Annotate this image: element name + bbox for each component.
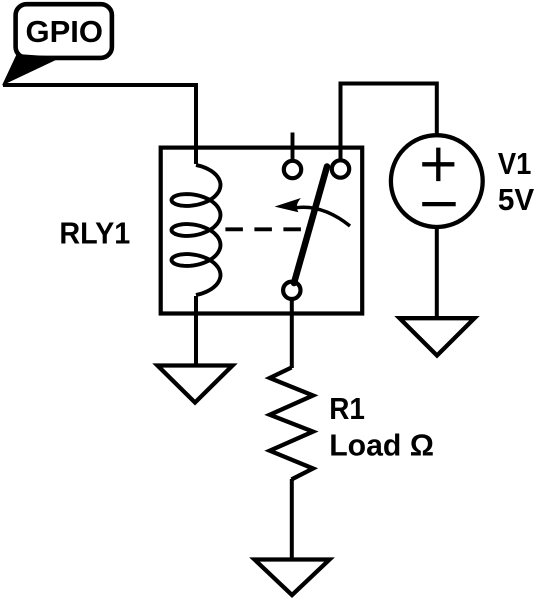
actuation arrow arc (294, 207, 350, 226)
mechanical linkage dashed line (225, 227, 301, 231)
svg-text:R1: R1 (329, 391, 365, 426)
minus sign (422, 202, 456, 206)
ground (load) (255, 560, 330, 596)
switch lever (294, 167, 327, 284)
svg-text:GPIO: GPIO (26, 14, 104, 49)
wire COM to V1 (341, 84, 437, 161)
COM contact circle (332, 160, 349, 177)
actuation arrow head (277, 199, 300, 212)
wire V1 to ground (435, 227, 439, 318)
GPIO callout tail (3, 55, 60, 85)
svg-text:5V: 5V (498, 182, 535, 217)
svg-text:RLY1: RLY1 (59, 216, 130, 251)
NC contact circle (284, 161, 301, 178)
svg-text:Load Ω: Load Ω (329, 427, 434, 462)
relay coil L1 (172, 165, 221, 295)
switch bottom contact circle (283, 282, 300, 299)
wire coil to ground (194, 296, 198, 366)
resistor R1 zigzag (270, 368, 313, 480)
voltage source V1 circle (391, 135, 483, 227)
svg-text:V1: V1 (498, 146, 532, 181)
wire resistor to ground (290, 479, 294, 560)
GPIO callout bubble (16, 4, 112, 58)
wire GPIO to relay coil (3, 85, 196, 164)
wire switch to resistor (290, 299, 294, 368)
relay RLY1 box (161, 148, 363, 314)
ground (coil) (158, 366, 233, 403)
plus sign (422, 148, 454, 182)
NC contact stub (291, 133, 295, 160)
ground (V1) (400, 318, 475, 355)
